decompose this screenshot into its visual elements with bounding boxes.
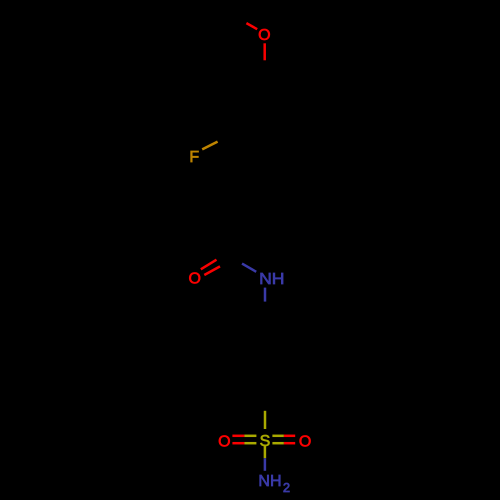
svg-text:O: O [218, 433, 230, 450]
svg-text:O: O [188, 271, 200, 288]
svg-text:NH: NH [259, 271, 284, 288]
svg-text:F: F [189, 149, 199, 166]
svg-text:O: O [299, 433, 311, 450]
svg-text:O: O [258, 27, 270, 44]
svg-text:S: S [260, 433, 271, 450]
